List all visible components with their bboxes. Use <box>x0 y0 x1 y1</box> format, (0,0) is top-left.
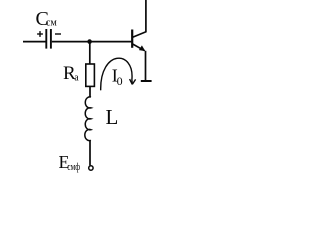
transistor collector diagonal <box>133 32 146 38</box>
wire junction down to resistor <box>89 42 91 64</box>
minus sign of capacitor <box>55 33 61 35</box>
terminal circle Eсмф <box>89 166 93 170</box>
wire resistor to inductor <box>89 86 91 97</box>
resistor Ra body <box>86 64 95 86</box>
svg-text:см: см <box>46 18 57 29</box>
capacitor Cсм left plate <box>45 29 47 49</box>
node junction dot <box>87 39 92 44</box>
svg-text:a: a <box>74 72 79 83</box>
svg-text:смф: смф <box>67 162 80 173</box>
inductor L coil <box>85 97 91 141</box>
svg-text:L: L <box>106 105 119 129</box>
ground bar at emitter <box>141 80 152 82</box>
svg-text:0: 0 <box>117 74 123 88</box>
capacitor Cсм right plate <box>50 29 52 49</box>
transistor base bar <box>131 30 133 48</box>
transistor emitter arrowhead <box>139 45 145 51</box>
transistor emitter diagonal <box>133 44 145 51</box>
wire collector lead to top edge <box>145 0 147 32</box>
current loop I0 arc <box>101 58 133 90</box>
wire inductor to terminal <box>89 140 91 165</box>
wire emitter lead down <box>145 51 147 81</box>
current loop I0 arrowhead <box>130 79 136 84</box>
plus sign of capacitor <box>37 33 43 35</box>
wire capacitor to base <box>52 41 132 43</box>
wire input left segment <box>23 41 46 43</box>
